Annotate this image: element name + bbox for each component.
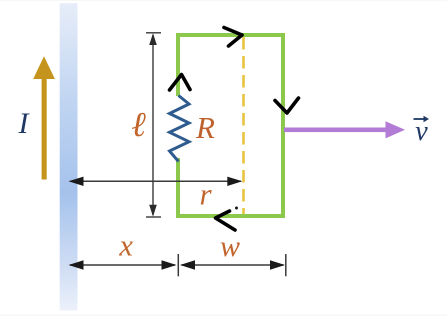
svg-text:v: v — [415, 116, 428, 147]
dimension line x (horizontal, wire to loop left edge) — [69, 254, 179, 276]
dimension line r (horizontal, wire to dashed line) — [69, 177, 243, 186]
svg-text:r: r — [199, 177, 212, 212]
loop (green rectangle) with gap on left side for resistor — [178, 35, 283, 216]
svg-text:R: R — [195, 110, 215, 145]
svg-text:w: w — [220, 230, 240, 263]
current direction chevron, top edge (points right) — [224, 28, 242, 47]
faint bottom edge row — [0, 314, 447, 316]
current direction chevron, left edge (points up) — [170, 75, 191, 91]
velocity arrow v (purple, rightward) — [284, 121, 405, 138]
dashed flux boundary line (yellow) — [242, 37, 245, 214]
current direction chevron, bottom edge (points left) — [216, 211, 236, 230]
current arrow I (gold, upward) — [33, 56, 55, 179]
svg-text:x: x — [118, 229, 133, 263]
faint top edge row — [0, 0, 447, 1]
dimension line ell (vertical, left of loop) — [146, 33, 161, 217]
dimension line w (horizontal, loop left edge to right edge) — [180, 254, 286, 276]
wire (current-carrying conductor, vertical blue band) — [60, 3, 78, 310]
svg-text:ℓ: ℓ — [131, 105, 146, 144]
resistor R (blue zigzag on left side of loop) — [170, 96, 190, 162]
svg-text:I: I — [18, 107, 31, 140]
label v with vector arrow — [414, 116, 430, 147]
current direction chevron, right edge (points down) — [275, 98, 299, 113]
small dot near bottom of dashed line — [235, 207, 238, 210]
